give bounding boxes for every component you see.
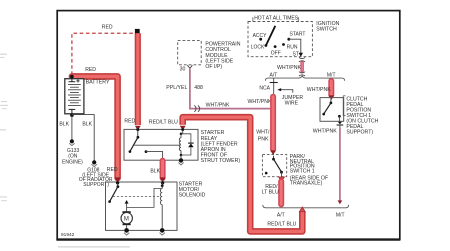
svg-text:WHT/PNK: WHT/PNK bbox=[206, 102, 230, 108]
wire RED dashed (battery to relay feed) bbox=[72, 33, 134, 75]
connector (in-line, >>) bbox=[194, 105, 199, 112]
svg-text:A/T: A/T bbox=[270, 73, 278, 79]
svg-text:RED: RED bbox=[85, 67, 96, 73]
svg-text:PPL/YEL: PPL/YEL bbox=[166, 85, 187, 91]
svg-text:M: M bbox=[124, 216, 129, 222]
ground G108 bbox=[92, 160, 97, 166]
motor feed arrow bbox=[125, 200, 129, 204]
wire BLK left (battery to G133) bbox=[71, 115, 73, 139]
svg-text:BLK: BLK bbox=[82, 121, 92, 127]
svg-text:WHT/PNK: WHT/PNK bbox=[313, 129, 337, 135]
plunger dashed link bbox=[113, 195, 160, 197]
wire RED thick relay feed bbox=[135, 33, 141, 125]
wire M/T branch (highlighted) bbox=[328, 81, 334, 95]
node S1 junction square bbox=[271, 106, 276, 111]
label starter relay bbox=[201, 130, 241, 164]
label park/neutral position switch bbox=[290, 154, 328, 187]
ignition switch box bbox=[248, 22, 312, 57]
svg-text:ST: ST bbox=[293, 52, 299, 58]
svg-text:RED: RED bbox=[124, 118, 135, 124]
solenoid ground bbox=[160, 228, 165, 235]
svg-text:RED/LT BLU: RED/LT BLU bbox=[149, 119, 178, 125]
powertrain control module U2 bbox=[178, 40, 202, 64]
svg-text:WHT/PNK: WHT/PNK bbox=[277, 65, 301, 71]
svg-text:488: 488 bbox=[194, 85, 203, 91]
wire ST inside box bbox=[289, 39, 301, 53]
solenoid contact switch bbox=[108, 183, 119, 203]
svg-text:RUN: RUN bbox=[287, 44, 298, 50]
svg-text:WIRE: WIRE bbox=[285, 101, 299, 107]
wire PPL/YEL 488 from PCM bbox=[190, 69, 270, 109]
svg-text:OF I/P): OF I/P) bbox=[205, 64, 222, 70]
jumper wire callout arrow bbox=[277, 88, 292, 93]
svg-text:LOCK: LOCK bbox=[251, 44, 265, 50]
svg-text:SOLENOID: SOLENOID bbox=[179, 192, 206, 198]
ground G133 bbox=[69, 139, 74, 145]
relay coil bbox=[179, 130, 182, 160]
svg-text:NCA: NCA bbox=[259, 85, 270, 91]
svg-text:RED: RED bbox=[102, 25, 113, 31]
svg-text:SUPPORT): SUPPORT) bbox=[346, 130, 373, 136]
svg-text:A/T: A/T bbox=[277, 213, 285, 219]
solenoid coil bbox=[160, 183, 163, 230]
relay ground bbox=[178, 158, 183, 165]
svg-text:PNK: PNK bbox=[258, 137, 269, 143]
svg-text:START: START bbox=[290, 32, 306, 38]
wire RED/LT BLU thick loop (splice to starter relay) bbox=[183, 117, 303, 231]
arrow BLK into solenoid bbox=[160, 177, 166, 182]
relay feed arrow terminal bbox=[135, 126, 141, 131]
connector C2 (box exit) bbox=[299, 57, 305, 62]
diode CR1 bbox=[181, 134, 194, 155]
svg-text:WHT/: WHT/ bbox=[256, 130, 270, 136]
scan artifacts left margin bbox=[0, 54, 130, 248]
svg-text:RED/LT BLU: RED/LT BLU bbox=[267, 221, 296, 227]
svg-text:ENGINE): ENGINE) bbox=[62, 159, 83, 165]
merge bracket (A/T + M/T) bbox=[263, 205, 349, 208]
clutch switch exit terminal bbox=[337, 122, 344, 128]
wire BLK right (battery to G108) bbox=[72, 115, 94, 161]
starter motor M bbox=[121, 211, 132, 229]
wire jumper A/T (highlighted) bbox=[270, 97, 276, 150]
node NCA terminal bbox=[270, 78, 278, 95]
svg-text:TRANSAXLE): TRANSAXLE) bbox=[290, 181, 323, 187]
wire BLK relay to solenoid (highlighted) bbox=[160, 161, 166, 178]
svg-text:WHT/PNK: WHT/PNK bbox=[307, 87, 331, 93]
battery B1 bbox=[65, 75, 84, 117]
svg-text:SWITCH 1: SWITCH 1 bbox=[290, 169, 315, 175]
splice brace (A/T vs M/T) bbox=[265, 76, 344, 81]
ignition switch contacts bbox=[251, 26, 306, 58]
svg-text:ACCY: ACCY bbox=[253, 33, 268, 39]
motor ground bbox=[124, 228, 129, 235]
park/neutral position switch S3 bbox=[262, 155, 286, 177]
svg-text:BATTERY: BATTERY bbox=[86, 80, 110, 86]
svg-text:SWITCH: SWITCH bbox=[316, 27, 337, 33]
svg-text:M/T: M/T bbox=[336, 213, 345, 219]
relay switch bbox=[129, 130, 181, 161]
clutch pedal position switch S2 bbox=[320, 98, 344, 122]
svg-text:LT BLU: LT BLU bbox=[262, 190, 279, 196]
label starter motor/solenoid bbox=[179, 181, 206, 198]
svg-text:BLK: BLK bbox=[59, 121, 69, 127]
arrow splice output bbox=[299, 207, 305, 212]
solenoid winding path bbox=[127, 188, 161, 207]
label clutch pedal position switch bbox=[343, 96, 378, 136]
svg-text:STRUT TOWER): STRUT TOWER) bbox=[201, 158, 241, 164]
RED/LT BLU arrow terminal bbox=[180, 126, 186, 131]
wire WHT/PNK clutch to splice bbox=[339, 127, 341, 200]
svg-text:WHT/PNK: WHT/PNK bbox=[248, 99, 272, 105]
arrow RED into solenoid bbox=[115, 177, 121, 182]
svg-text:30: 30 bbox=[180, 66, 186, 72]
wire RED/LT BLU from P/N switch (highlighted) bbox=[278, 181, 284, 204]
starter relay U1 bbox=[124, 129, 198, 160]
arrow P/N exit bbox=[279, 177, 285, 182]
svg-text:M/T: M/T bbox=[327, 72, 336, 78]
wire WHT/PNK ST (highlighted) bbox=[300, 63, 303, 71]
svg-text:HOT AT ALL TIMES: HOT AT ALL TIMES bbox=[254, 15, 299, 21]
svg-text:OFF: OFF bbox=[271, 50, 281, 56]
starter motor/solenoid box bbox=[106, 182, 178, 230]
connector (above splice) bbox=[299, 72, 305, 76]
node junction (dashed RED to relay feed wire) bbox=[135, 29, 140, 34]
svg-text:BLK: BLK bbox=[150, 169, 160, 175]
svg-text:91942: 91942 bbox=[61, 232, 75, 238]
wire RED thick battery to starter motor bbox=[72, 76, 118, 178]
border frame bbox=[57, 11, 400, 240]
